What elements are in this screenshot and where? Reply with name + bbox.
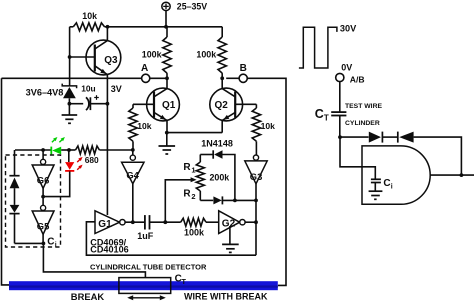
wire Q3 base drop	[69, 27, 71, 86]
node A junction	[165, 76, 169, 80]
node 680 left junction	[67, 148, 71, 152]
inverter G6	[32, 150, 54, 188]
detector D-shape outline	[362, 146, 430, 204]
svg-text:R: R	[183, 188, 191, 199]
svg-text:G4: G4	[126, 170, 139, 181]
svg-text:0V: 0V	[341, 62, 352, 72]
capacitor C_T (test wire / cylinder)	[315, 103, 383, 137]
node G2 output junction	[254, 220, 258, 224]
inverter G3	[245, 155, 267, 184]
svg-text:1: 1	[191, 166, 195, 175]
svg-text:CYLINDRICAL TUBE DETECTOR: CYLINDRICAL TUBE DETECTOR	[90, 262, 207, 271]
inverter G2	[219, 211, 245, 234]
wire left edge drop to cylinder	[2, 78, 10, 285]
svg-text:G6: G6	[37, 174, 50, 185]
node 3V cap junction	[106, 102, 110, 106]
resistor R-10k (Q1 base)	[129, 104, 152, 150]
node B terminal circle	[226, 63, 247, 82]
wire sensor output to cylinder	[43, 243, 145, 277]
LED red D-red	[43, 150, 83, 197]
node detector output junction	[460, 173, 464, 177]
wire sensor bottom	[15, 242, 44, 244]
svg-text:i: i	[391, 184, 393, 191]
diode D-up (sensor left branch)	[9, 150, 19, 205]
svg-text:TEST WIRE: TEST WIRE	[345, 103, 382, 110]
wire node A row to left edge	[2, 77, 142, 79]
node supply rail junction	[164, 25, 168, 29]
node A/B terminal	[336, 73, 365, 84]
svg-text:C: C	[383, 178, 390, 189]
svg-text:A/B: A/B	[350, 75, 365, 85]
node Q3 base junction	[68, 55, 72, 59]
cylinder tube rectangle	[119, 278, 171, 294]
svg-text:1N4148: 1N4148	[201, 138, 233, 148]
resistor R-100k (oscillator)	[181, 218, 219, 238]
resistor R-10k (Q2 base)	[252, 104, 275, 155]
svg-text:10k: 10k	[261, 121, 276, 131]
capacitor C-10u polarized	[69, 84, 107, 111]
capacitor C-1uF	[137, 215, 181, 241]
svg-text:C: C	[47, 236, 54, 247]
capacitor C_i detector	[371, 178, 393, 191]
zener diode D-3V6-4V8	[26, 84, 77, 115]
dashed box (sensor)	[6, 155, 61, 247]
svg-text:3V: 3V	[111, 84, 122, 94]
wire G1 output	[125, 221, 145, 223]
resistor R-100k right	[196, 27, 226, 79]
svg-text:Q2: Q2	[215, 100, 229, 111]
svg-text:10u: 10u	[81, 84, 95, 94]
wire green LED to 680	[61, 149, 75, 151]
wire detector output	[430, 174, 474, 176]
svg-text:10k: 10k	[82, 11, 97, 21]
svg-text:Q1: Q1	[162, 100, 176, 111]
svg-text:T: T	[324, 114, 329, 123]
wire emitter rail	[167, 132, 222, 134]
svg-text:G3: G3	[250, 171, 263, 182]
node B junction	[220, 76, 224, 80]
wire node B to right drop	[247, 78, 286, 285]
svg-text:30V: 30V	[340, 24, 357, 34]
inverter G5	[32, 205, 54, 234]
svg-text:25–35V: 25–35V	[177, 2, 207, 12]
wiper arrow	[165, 177, 196, 222]
svg-text:10k: 10k	[137, 121, 152, 131]
wire Q3 emitter 3V rail	[106, 74, 108, 215]
ground (C_i)	[369, 191, 383, 199]
wire A/B to C_T	[339, 82, 341, 112]
svg-text:200k: 200k	[210, 173, 230, 183]
node detector input junction	[338, 135, 342, 139]
potentiometer R1/R2 200k	[183, 155, 229, 202]
node wiper junction	[163, 220, 167, 224]
wire G5 output	[42, 234, 44, 243]
svg-text:R: R	[183, 162, 191, 173]
double arrow (tube span)	[127, 295, 166, 300]
diode D-down (sensor left branch)	[9, 205, 19, 244]
wire A to Q1 collector	[150, 77, 167, 79]
svg-text:C: C	[315, 107, 324, 121]
svg-text:A: A	[141, 63, 148, 74]
diode D-1N4148 bottom (points right)	[200, 196, 256, 204]
wire G3 output column	[255, 184, 257, 255]
node pot-rail junction	[254, 199, 258, 203]
svg-text:100k: 100k	[142, 49, 162, 59]
waveform square wave	[299, 27, 337, 68]
transistor Q3	[70, 27, 121, 75]
svg-text:G2: G2	[222, 219, 236, 230]
node pot bottom junction	[233, 199, 237, 203]
svg-text:CD40106: CD40106	[90, 245, 128, 255]
wire sensor top row	[15, 149, 51, 151]
node A terminal circle	[142, 74, 150, 82]
node G4 input junction	[131, 148, 135, 152]
LED green D-green	[51, 137, 65, 154]
node emitter junction	[165, 131, 169, 135]
ground (zener)	[62, 115, 78, 123]
resistor R-680	[76, 146, 133, 165]
diode D-det1 (points right)	[340, 132, 397, 143]
svg-text:100k: 100k	[196, 49, 216, 59]
node G6 input junction	[41, 148, 45, 152]
svg-text:CYLINDER: CYLINDER	[345, 120, 380, 127]
node zener-cap junction	[68, 102, 72, 106]
transistor Q1	[133, 78, 179, 132]
svg-text:2: 2	[191, 192, 195, 201]
svg-text:BREAK: BREAK	[71, 291, 105, 302]
node G6 output junction	[42, 188, 44, 205]
svg-text:Q3: Q3	[104, 55, 118, 66]
svg-text:3V6–4V8: 3V6–4V8	[26, 88, 64, 98]
svg-text:i: i	[55, 242, 57, 249]
wire G4 output	[132, 184, 134, 223]
inverter G1	[95, 211, 125, 234]
svg-text:WIRE WITH BREAK: WIRE WITH BREAK	[184, 291, 268, 301]
inverter G4	[122, 150, 144, 184]
node C_i sensor junction	[42, 242, 46, 246]
wire into C_i detector	[340, 137, 375, 179]
diode D-1N4148 top (points left)	[200, 150, 235, 200]
wire G1 input feedback	[86, 222, 256, 255]
ground (emitters)	[159, 133, 176, 154]
diode D-det2 (points left)	[398, 132, 462, 176]
svg-text:1uF: 1uF	[137, 231, 154, 241]
svg-text:B: B	[240, 63, 247, 74]
node G4-G1 junction	[131, 220, 135, 224]
svg-text:T: T	[182, 279, 187, 286]
transistor Q2 (mirrored)	[210, 78, 257, 132]
svg-text:100k: 100k	[184, 228, 205, 238]
resistor R-10k (Q3 feedback) value 10k	[70, 11, 105, 31]
svg-text:G5: G5	[37, 221, 50, 232]
ground (G2)	[222, 226, 239, 252]
svg-text:G1: G1	[98, 219, 112, 230]
svg-text:680: 680	[85, 155, 99, 165]
node Q3 collector junction	[106, 25, 110, 29]
blue wire (test wire)	[9, 281, 278, 290]
wire top rail	[105, 26, 223, 28]
resistor R-100k left	[142, 27, 171, 79]
wire G2 output	[245, 221, 256, 223]
power supply terminal +25-35V	[162, 2, 207, 27]
